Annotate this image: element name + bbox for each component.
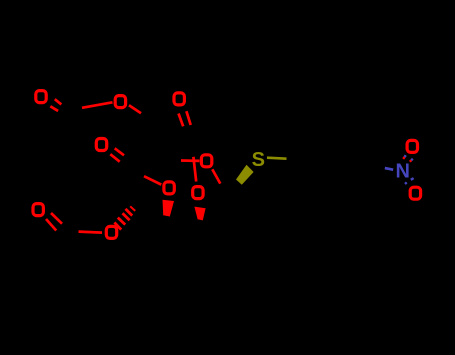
ring oxygen O5 label	[201, 155, 211, 167]
svg-text:N: N	[395, 160, 409, 182]
N=O upper double bond	[403, 155, 413, 162]
ester O6 label	[115, 96, 125, 108]
carbonyl O of C2 acetate (top-middle)	[174, 93, 184, 105]
C=O double bond (top-left acetate)	[50, 99, 61, 111]
carbonyl O of C3 acetate (left-middle)	[96, 139, 106, 151]
svg-text:S: S	[252, 149, 265, 171]
ester O on C4 label	[106, 226, 116, 238]
nitro upper O label	[407, 140, 417, 152]
O6-C6 bond	[129, 105, 141, 113]
wedge bond C1 to S	[236, 165, 254, 185]
S to phenyl bond stub	[267, 158, 287, 159]
acetate carbonyl O (top-left, O=C of C6 acetate)	[36, 91, 46, 103]
wedge bond O to C2	[194, 207, 205, 221]
ester O on C3 label	[164, 182, 174, 194]
C=O double bond (C2 acetate)	[179, 111, 191, 126]
hashed stereo bond O to C4 (5 dashes)	[114, 206, 135, 229]
wedge bond O to C3	[163, 200, 175, 217]
C=O double bond (C3 acetate)	[110, 148, 124, 161]
phenyl to N bond stub	[385, 168, 393, 170]
nitro lower O label	[410, 187, 420, 199]
C-O bond from acetyl C down to ester O of C2	[193, 157, 196, 182]
carbonyl O of C4 acetate (bottom-left)	[33, 204, 43, 216]
C-O ester bond (bottom-left acetate)	[79, 232, 103, 233]
C-O ester bond (top-left acetate to O6)	[82, 102, 113, 108]
N-O lower double bond	[405, 178, 414, 184]
O5-C1 ring bond	[212, 169, 220, 183]
ester O on C2 label	[193, 187, 203, 199]
C5-O5 ring bond (horizontal into ring O)	[181, 159, 200, 162]
C=O double bond (bottom-left acetate)	[46, 213, 62, 231]
C-O bond (C3 acetyl C to ester O)	[144, 176, 161, 184]
